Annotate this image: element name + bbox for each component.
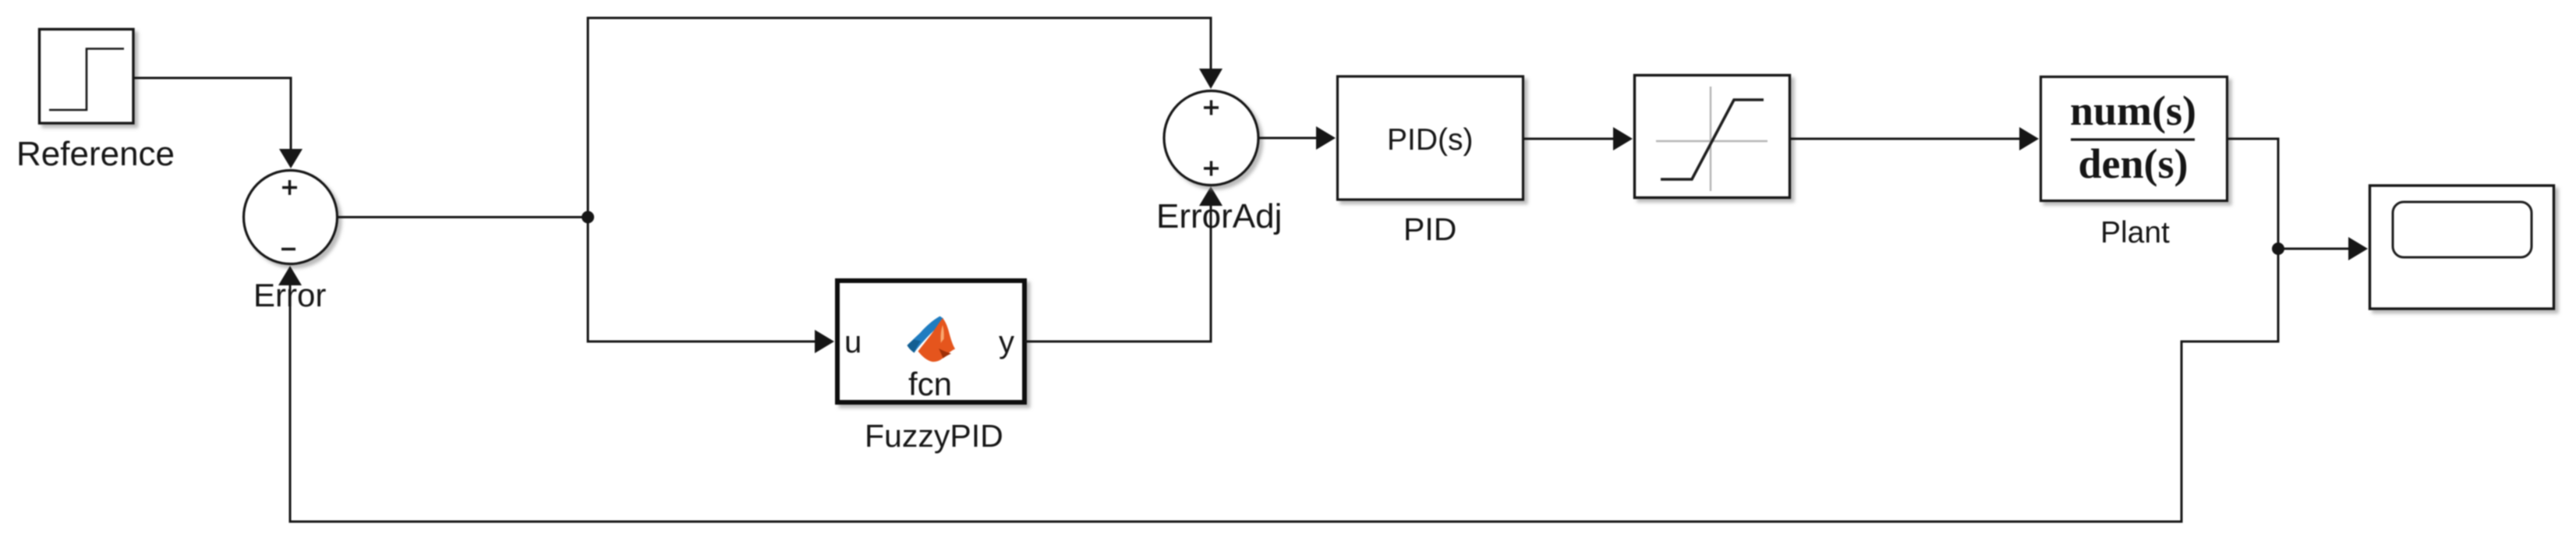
- MATLAB logo: [908, 317, 956, 363]
- wire Plant to node B (right then down): [2227, 139, 2278, 243]
- sum junction ErrorAdj: [1164, 91, 1258, 186]
- svg-text:PID(s): PID(s): [1387, 123, 1474, 157]
- svg-text:Reference: Reference: [16, 135, 175, 173]
- svg-text:den(s): den(s): [2078, 140, 2188, 187]
- svg-text:fcn: fcn: [908, 366, 952, 402]
- wire ErrorAdj to PID block (arrowhead right): [1259, 126, 1336, 150]
- fraction bar: [2071, 138, 2195, 140]
- saturation curve: [1661, 100, 1764, 179]
- MATLAB Function block FuzzyPID: [837, 281, 1024, 402]
- wire node A up and across to ErrorAdj top input (arrowhead down): [588, 18, 1223, 218]
- svg-text:ErrorAdj: ErrorAdj: [1156, 197, 1282, 235]
- svg-text:num(s): num(s): [2070, 87, 2196, 134]
- gray axes: [1656, 87, 1767, 191]
- wire PID to Saturation (arrowhead right): [1524, 127, 1633, 150]
- svg-text:y: y: [999, 325, 1014, 359]
- svg-text:FuzzyPID: FuzzyPID: [865, 418, 1003, 454]
- step icon: [49, 49, 124, 111]
- sum junction Error: [244, 171, 338, 264]
- svg-text:u: u: [844, 325, 862, 359]
- wire FuzzyPID y output right then up to ErrorAdj bottom input (arrowhead up): [1024, 186, 1223, 341]
- wire node A down and right to FuzzyPID input u (arrowhead right): [588, 218, 834, 354]
- wire Saturation to Plant (arrowhead right): [1790, 127, 2039, 150]
- step source block Reference: [40, 30, 134, 124]
- wire node B to Scope (arrowhead right): [2278, 237, 2368, 260]
- saturation block: [1635, 76, 1790, 198]
- svg-text:PID: PID: [1403, 211, 1456, 247]
- PID controller block: [1338, 76, 1523, 200]
- svg-text:Plant: Plant: [2100, 216, 2170, 249]
- wire Error sum to node A: [338, 216, 585, 218]
- feedback wire node B down, staircase left, up into Error sum minus input (arrowhead up): [278, 249, 2278, 522]
- node B junction dot: [2272, 242, 2284, 255]
- transfer function block Plant: [2041, 77, 2227, 201]
- scope block: [2370, 186, 2554, 309]
- node A junction dot: [582, 211, 594, 224]
- wire Reference to Error sum (right then down, arrowhead): [133, 78, 303, 168]
